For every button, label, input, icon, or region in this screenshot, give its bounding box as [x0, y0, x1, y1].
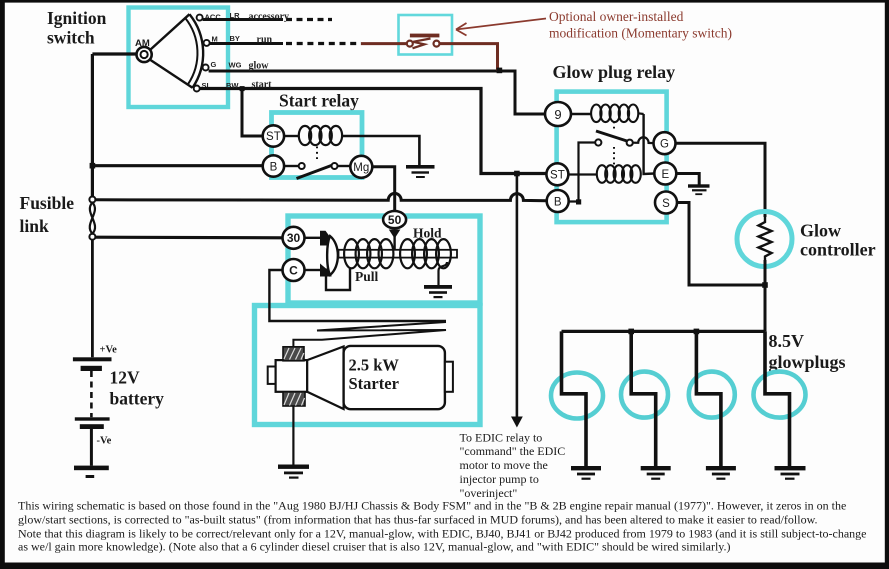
svg-text:Glow plug relay: Glow plug relay	[553, 62, 676, 82]
starter contact C	[305, 264, 332, 277]
glow relay switch	[595, 122, 633, 166]
svg-text:To EDIC relay to: To EDIC relay to	[460, 431, 543, 445]
wire motor to ground	[292, 406, 294, 465]
svg-text:"command" the EDIC: "command" the EDIC	[460, 444, 566, 458]
svg-text:C: C	[289, 264, 298, 278]
wire C contact to pull coil	[326, 268, 350, 290]
svg-text:BW: BW	[226, 81, 239, 90]
svg-text:30: 30	[287, 231, 301, 245]
svg-text:glow/start sections, is correc: glow/start sections, is corrected to "as…	[18, 513, 817, 527]
wire fusible link to battery	[91, 240, 94, 358]
glowplug 4	[754, 331, 806, 466]
svg-text:Ignition: Ignition	[47, 8, 107, 28]
svg-text:WG: WG	[229, 61, 242, 70]
svg-text:S: S	[662, 198, 670, 210]
momentary switch	[361, 34, 440, 49]
wire S to controller output	[677, 203, 765, 286]
node battery to start relay B junction	[90, 163, 96, 169]
svg-text:Start relay: Start relay	[279, 91, 359, 111]
svg-text:G: G	[211, 60, 217, 69]
svg-text:12V: 12V	[110, 368, 141, 388]
start relay coil	[284, 126, 342, 159]
ground glowplug 4	[775, 466, 806, 480]
glow relay terminal ST	[546, 163, 568, 185]
svg-text:accessory: accessory	[249, 12, 290, 23]
glow relay terminal E	[654, 163, 676, 185]
svg-text:ST: ST	[266, 131, 281, 143]
start relay label	[279, 91, 359, 111]
wire BY run	[210, 34, 361, 46]
glow relay bottom coil	[569, 165, 641, 183]
terminal C	[283, 259, 305, 281]
starter contact 30	[305, 231, 332, 246]
svg-text:controller: controller	[800, 240, 876, 260]
glow relay terminal S	[655, 192, 677, 214]
svg-text:Mg: Mg	[353, 162, 369, 174]
svg-text:start: start	[252, 80, 273, 91]
terminal AM	[135, 38, 152, 62]
wire battery to start relay B	[92, 164, 262, 167]
svg-text:AM: AM	[135, 38, 150, 49]
wire glow relay switch to B	[569, 143, 595, 205]
terminal 30	[283, 227, 305, 249]
battery 12V	[73, 345, 164, 466]
glowplugs label	[769, 331, 846, 372]
start relay terminal ST	[263, 125, 284, 146]
wire WG glow	[209, 61, 546, 115]
svg-text:run: run	[257, 35, 273, 46]
svg-text:motor to move the: motor to move the	[460, 458, 548, 472]
glow controller label	[800, 221, 876, 260]
momentary switch box	[399, 15, 453, 55]
svg-text:+Ve: +Ve	[100, 345, 118, 356]
wire momentary switch to glow wire	[440, 44, 498, 71]
ground glowplug 2	[641, 466, 671, 480]
svg-text:2.5 kW: 2.5 kW	[349, 356, 400, 375]
ignition switch label	[47, 8, 107, 48]
terminal M	[204, 35, 218, 46]
glow relay terminal 9	[545, 102, 571, 126]
start relay terminal Mg	[350, 156, 372, 178]
ground start relay	[406, 165, 435, 178]
glowplug 1	[551, 331, 603, 466]
svg-text:This wiring schematic is based: This wiring schematic is based on those …	[18, 499, 846, 513]
wire to EDIC relay	[511, 171, 523, 428]
ignition switch box	[129, 8, 229, 108]
wire switch to G with hop	[633, 137, 654, 143]
starter lever linkage	[293, 322, 446, 348]
svg-text:Note that this diagram is like: Note that this diagram is likely to be c…	[18, 527, 867, 541]
EDIC note	[460, 431, 566, 501]
start relay terminal B	[263, 155, 284, 176]
glowplug 2	[621, 331, 668, 466]
wire LR accessory	[203, 11, 332, 23]
wire fusible link to glow relay B	[95, 193, 547, 200]
svg-text:Hold: Hold	[413, 226, 442, 241]
svg-text:link: link	[20, 216, 49, 236]
terminal ACC	[197, 13, 222, 22]
start relay switch	[284, 163, 350, 179]
start relay box	[272, 113, 363, 178]
glowplug bus wire	[562, 329, 766, 335]
svg-text:glowplugs: glowplugs	[769, 352, 846, 372]
ground glowplug 1	[571, 466, 601, 480]
glow controller	[737, 212, 792, 267]
svg-text:injector pump to: injector pump to	[460, 472, 539, 486]
svg-text:Glow: Glow	[800, 221, 841, 241]
glow relay top coil	[571, 105, 644, 123]
starter solenoid box	[288, 216, 480, 303]
svg-text:Fusible: Fusible	[20, 193, 75, 213]
svg-text:LR: LR	[230, 11, 241, 20]
terminal G	[203, 60, 217, 71]
ground starter motor	[278, 465, 309, 479]
svg-text:as we/l gain more knowledge).: as we/l gain more knowledge). (Note also…	[18, 540, 731, 554]
svg-text:B: B	[554, 197, 562, 209]
glowplug 3	[689, 331, 735, 466]
node glow junction	[497, 68, 503, 74]
ignition switch S1 rotor	[151, 14, 204, 88]
svg-text:Pull: Pull	[355, 269, 379, 284]
glow relay terminal B	[547, 190, 569, 212]
svg-text:switch: switch	[47, 28, 95, 48]
wire controller to glowplug bus	[762, 260, 768, 331]
svg-text:E: E	[661, 169, 669, 181]
fusible link	[89, 197, 95, 240]
svg-text:50: 50	[388, 213, 402, 227]
svg-text:modification (Momentary switch: modification (Momentary switch)	[549, 26, 732, 41]
wire fusible link to starter 30	[95, 236, 282, 240]
wire hold coil to ground	[439, 262, 448, 285]
solenoid plunger	[327, 236, 338, 275]
wire E to ground	[676, 174, 699, 185]
terminal SI	[194, 81, 209, 92]
wire start relay coil to ground	[342, 136, 419, 165]
solenoid shaft	[339, 250, 458, 258]
starter motor	[268, 346, 453, 409]
ground starter solenoid	[424, 285, 452, 298]
svg-text:G: G	[660, 139, 669, 151]
fusible link label	[20, 193, 75, 236]
svg-text:Starter: Starter	[349, 374, 399, 393]
wire BW start	[200, 80, 546, 174]
wire C terminal to motor	[269, 270, 446, 321]
wire glow relay coils to E	[644, 114, 655, 174]
starter motor box	[255, 306, 481, 425]
svg-text:Optional owner-installed: Optional owner-installed	[549, 9, 684, 24]
terminal 50	[383, 211, 406, 252]
label Pull	[355, 269, 379, 284]
svg-text:ST: ST	[550, 170, 565, 182]
svg-text:9: 9	[554, 107, 561, 122]
svg-text:battery: battery	[110, 389, 165, 409]
momentary switch modification note	[456, 9, 732, 41]
pull coil	[344, 239, 393, 268]
svg-text:glow: glow	[249, 61, 270, 72]
wire G to glow controller	[676, 143, 766, 217]
footnote paragraph	[18, 499, 867, 554]
svg-text:-Ve: -Ve	[97, 436, 112, 447]
label Hold	[413, 226, 442, 241]
glow relay terminal G	[654, 132, 676, 154]
glow plug relay box	[557, 92, 667, 223]
svg-text:8.5V: 8.5V	[769, 331, 805, 351]
hold coil	[400, 239, 451, 268]
svg-text:BY: BY	[230, 34, 240, 43]
wire Mg to terminal 50	[372, 167, 394, 212]
ground E	[688, 184, 710, 195]
ground battery	[74, 466, 109, 478]
ground glowplug 3	[706, 466, 736, 480]
svg-text:B: B	[270, 162, 278, 174]
glow plug relay label	[553, 62, 676, 82]
wire AM feed	[92, 54, 137, 199]
